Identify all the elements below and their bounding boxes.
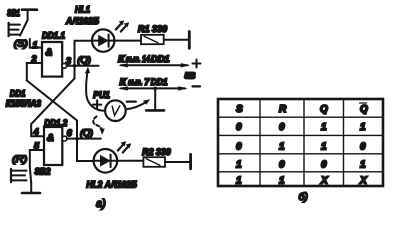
- svg-text:К155ЛА3: К155ЛА3: [6, 99, 41, 109]
- plus terminal: [193, 60, 201, 68]
- junction dot Q-bar: [75, 137, 79, 141]
- wire to HL2: [77, 139, 94, 161]
- voltmeter PU1: [105, 100, 126, 121]
- svg-text:&: &: [46, 48, 53, 59]
- svg-text:SB2: SB2: [35, 167, 51, 177]
- svg-text:2: 2: [31, 54, 37, 64]
- table row 3: [236, 159, 366, 170]
- wire output Q: [67, 65, 99, 67]
- svg-text:1: 1: [321, 122, 327, 133]
- svg-text:R1 330: R1 330: [138, 24, 167, 34]
- gate DD1.2: [44, 127, 62, 165]
- svg-text:S: S: [236, 104, 243, 115]
- pushbutton SB2: [11, 166, 40, 193]
- svg-text:X: X: [359, 176, 368, 187]
- wire HL2 to R2: [117, 160, 143, 162]
- probe wire to Q: [86, 71, 105, 111]
- svg-text:0: 0: [360, 141, 366, 152]
- svg-text:R2 330: R2 330: [142, 147, 171, 157]
- LED HL2: [94, 141, 132, 172]
- svg-text:PU1: PU1: [93, 90, 110, 100]
- cross wire from Q to pin4: [31, 66, 74, 137]
- svg-text:1: 1: [236, 159, 242, 170]
- wire output Q-bar: [67, 138, 101, 140]
- wire to HL1: [75, 41, 93, 66]
- svg-text:1: 1: [360, 122, 366, 133]
- svg-text:3: 3: [66, 56, 71, 66]
- svg-text:0: 0: [321, 159, 327, 170]
- table row 2: [236, 141, 366, 152]
- wire HL1 to R1: [114, 40, 141, 42]
- svg-text:а): а): [96, 198, 106, 210]
- svg-text:R: R: [279, 104, 287, 115]
- svg-text:DD1.2: DD1.2: [44, 118, 67, 128]
- svg-text:(R): (R): [12, 154, 27, 165]
- terminal bar: [188, 32, 191, 49]
- svg-text:1: 1: [279, 176, 285, 187]
- svg-text:5В: 5В: [185, 71, 196, 81]
- svg-text:4: 4: [33, 127, 39, 137]
- svg-text:0: 0: [236, 141, 242, 152]
- truth table: [218, 99, 383, 186]
- svg-text:1: 1: [321, 141, 327, 152]
- inversion bubble pin 3: [62, 63, 67, 68]
- pushbutton SB1: [9, 10, 37, 37]
- svg-text:АЛ102Б: АЛ102Б: [65, 16, 100, 26]
- svg-text:SB1: SB1: [7, 8, 20, 18]
- resistor R2: [143, 157, 165, 167]
- node (Q-bar): [80, 128, 93, 138]
- svg-text:HL2 АЛ102Б: HL2 АЛ102Б: [86, 180, 137, 190]
- minus terminal: [193, 85, 201, 87]
- svg-text:1: 1: [279, 141, 285, 152]
- junction dot Q: [73, 64, 77, 68]
- probe wire to common: [125, 102, 147, 110]
- inversion bubble pin 6: [62, 136, 67, 141]
- svg-text:1: 1: [33, 40, 38, 50]
- svg-text:Q: Q: [320, 104, 328, 115]
- common terminal T-bar: [154, 88, 156, 110]
- plus probe sign: [93, 100, 102, 109]
- svg-text:0: 0: [236, 122, 242, 133]
- svg-text:Q: Q: [360, 104, 368, 115]
- svg-text:б): б): [299, 191, 308, 203]
- dashed probe to Q-bar: [93, 117, 102, 132]
- svg-text:&: &: [47, 133, 54, 144]
- wire pin5 of DD1.2: [30, 150, 44, 166]
- table header Q-bar: [360, 103, 369, 115]
- svg-text:HL1: HL1: [75, 5, 90, 15]
- table row 1: [236, 122, 366, 133]
- wire pin1 of DD1.1: [30, 39, 42, 48]
- table row 4: [236, 176, 368, 187]
- wire pin2 of DD1.1: [27, 63, 42, 81]
- svg-text:(Q): (Q): [77, 55, 91, 65]
- wire arrow line 14: [118, 63, 190, 67]
- svg-text:DD1.1: DD1.1: [42, 31, 65, 41]
- junction dot on line 7: [153, 87, 157, 91]
- svg-text:(S): (S): [14, 39, 28, 50]
- LED HL1: [92, 20, 129, 52]
- cross wire from Q-bar to pin2: [27, 81, 77, 139]
- wire arrow line 7: [118, 86, 187, 90]
- wire R2 to terminal: [165, 161, 191, 163]
- svg-text:1: 1: [236, 176, 242, 187]
- svg-text:X: X: [320, 176, 329, 187]
- wire R1 to terminal: [164, 39, 190, 41]
- gate DD1.1: [42, 42, 62, 77]
- minus probe sign: [127, 100, 136, 102]
- svg-text:DD1: DD1: [10, 89, 26, 99]
- svg-text:0: 0: [279, 122, 285, 133]
- svg-text:1: 1: [360, 159, 366, 170]
- svg-text:0: 0: [279, 159, 285, 170]
- terminal bar: [189, 154, 192, 168]
- svg-text:Квыв.14DD1: Квыв.14DD1: [118, 54, 169, 64]
- resistor R1: [141, 35, 164, 44]
